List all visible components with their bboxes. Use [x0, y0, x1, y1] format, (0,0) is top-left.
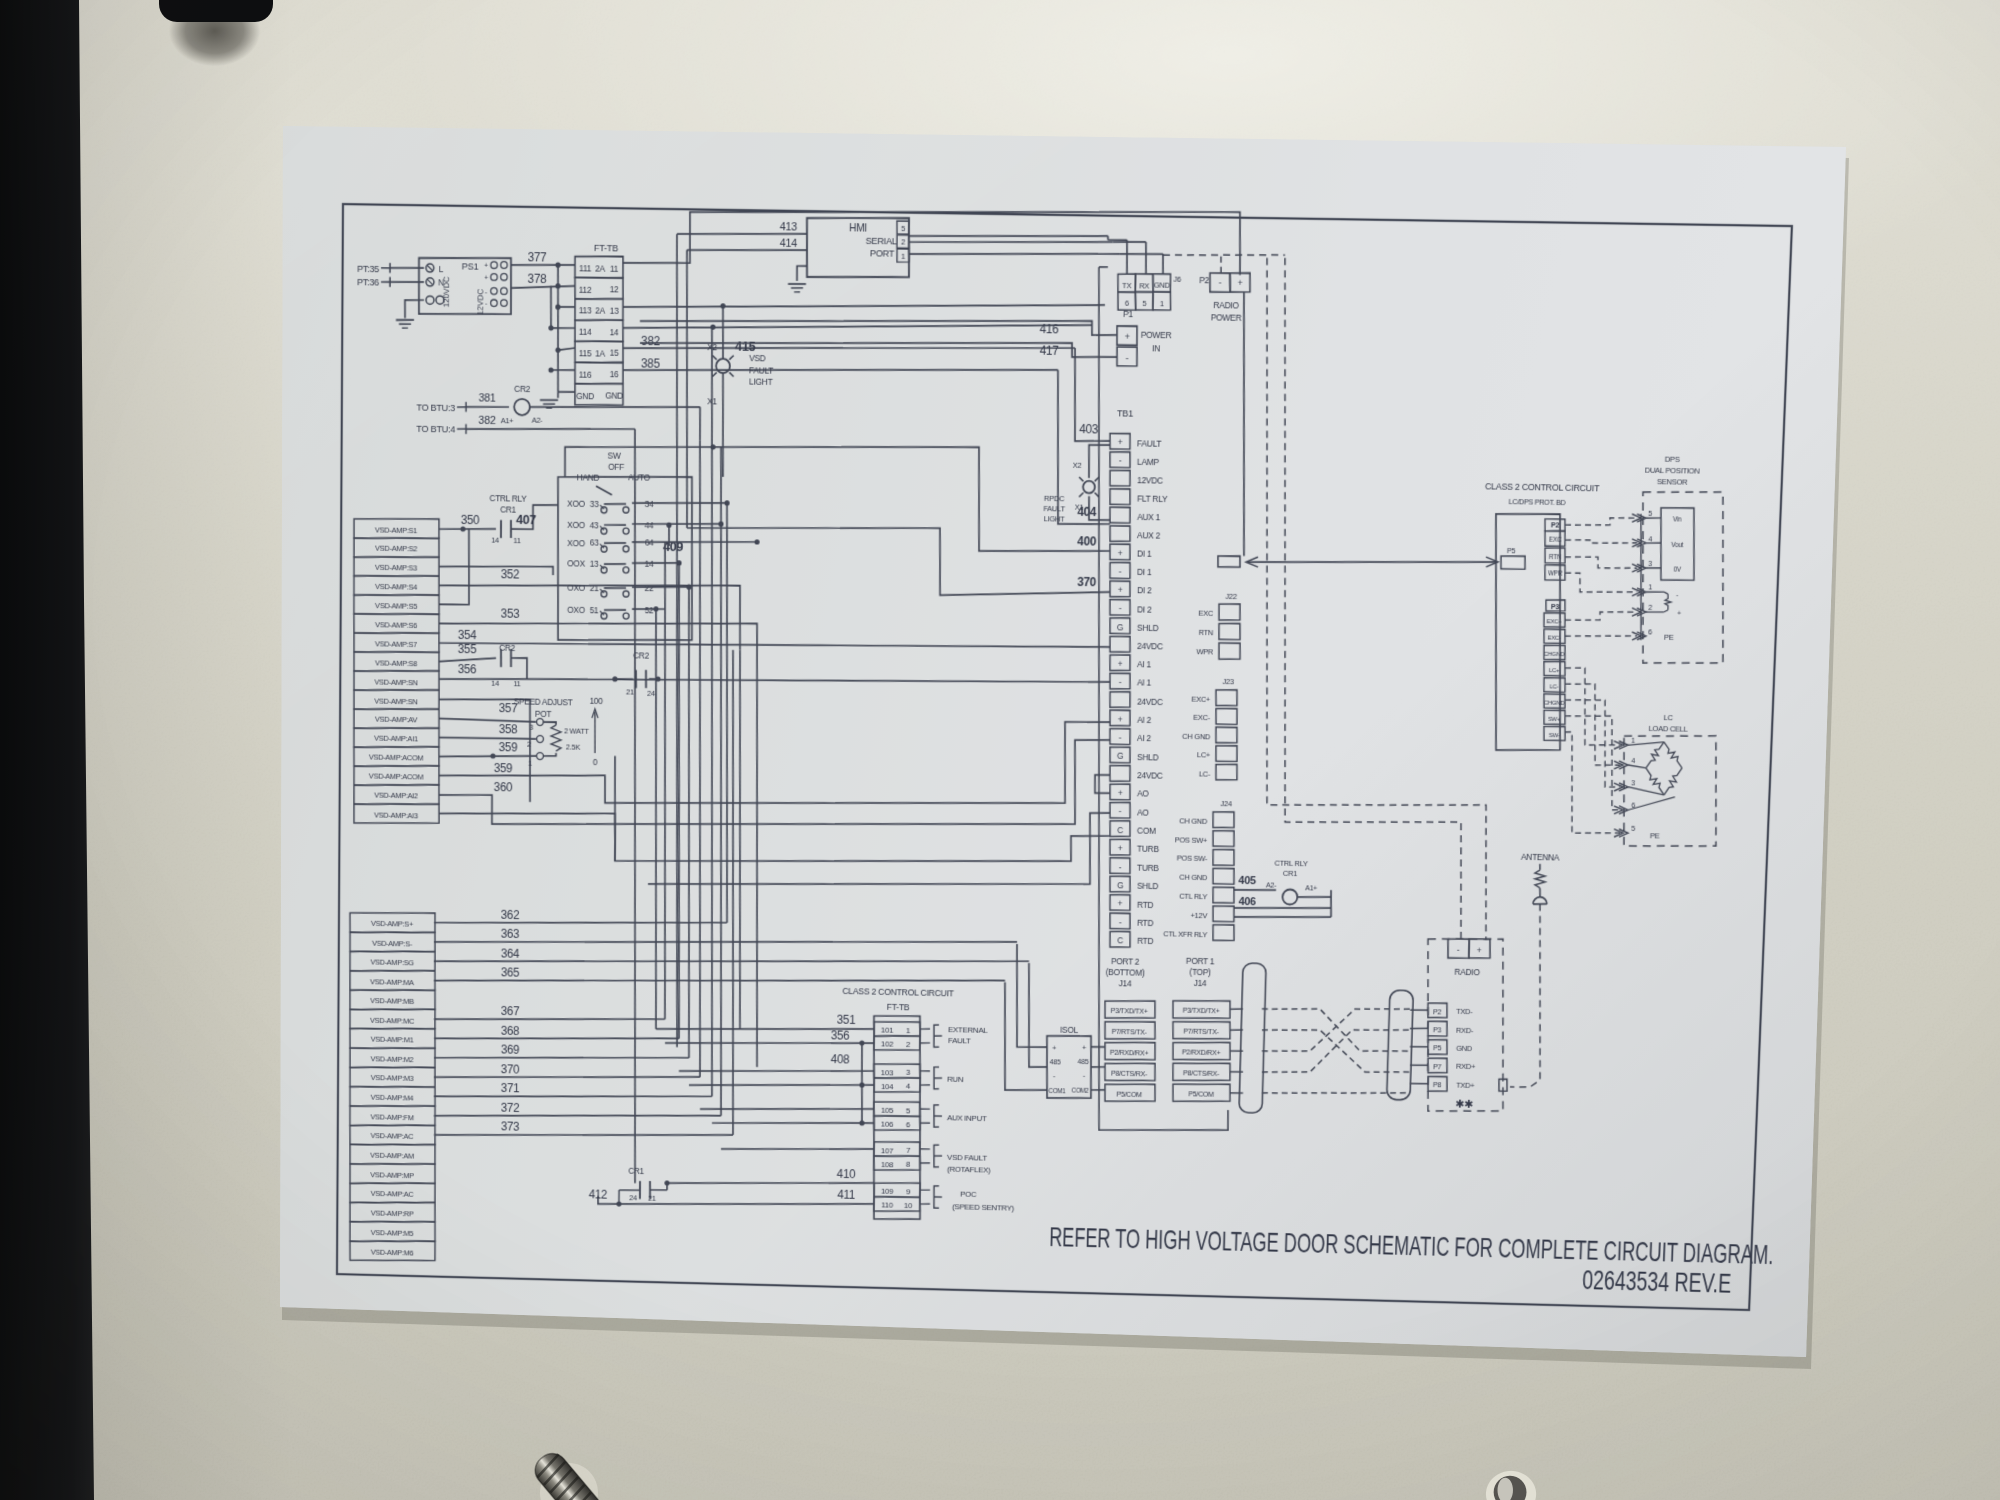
wire P2- stub — [1220, 255, 1223, 273]
svg-text:LC/DPS PROT. BD: LC/DPS PROT. BD — [1508, 497, 1565, 507]
svg-text:VSD-AMP:S+: VSD-AMP:S+ — [371, 919, 414, 929]
svg-text:410: 410 — [837, 1167, 856, 1181]
svg-text:RADIO: RADIO — [1454, 967, 1480, 978]
svg-text:RPDC: RPDC — [1044, 494, 1065, 503]
svg-text:L: L — [439, 264, 444, 274]
svg-text:14: 14 — [645, 559, 654, 569]
sensor DPS dashed box — [1637, 491, 1730, 665]
svg-text:485: 485 — [1078, 1057, 1089, 1066]
svg-text:SPEED ADJUST: SPEED ADJUST — [514, 696, 574, 707]
svg-text:2: 2 — [906, 1040, 911, 1049]
svg-text:EXTERNAL: EXTERNAL — [948, 1025, 988, 1035]
wire ISOL to PORT2 b — [1091, 1066, 1105, 1069]
wire SN to bus — [438, 698, 531, 802]
svg-text:5: 5 — [1648, 509, 1652, 518]
svg-text:4: 4 — [1631, 756, 1635, 765]
svg-text:CTL XFR RLY: CTL XFR RLY — [1163, 929, 1207, 939]
svg-text:-: - — [1119, 603, 1122, 613]
svg-text:+: + — [1118, 899, 1123, 909]
svg-text:VSD-AMP:M6: VSD-AMP:M6 — [371, 1247, 414, 1257]
svg-text:11: 11 — [610, 263, 619, 273]
svg-text:P3/TXD/TX+: P3/TXD/TX+ — [1182, 1006, 1219, 1016]
label CLASS 2 CONTROL CIRCUIT right — [1484, 481, 1600, 508]
wire 373 — [434, 1118, 733, 1142]
svg-text:3: 3 — [529, 723, 533, 732]
svg-text:P8/CTS/RX-: P8/CTS/RX- — [1183, 1069, 1220, 1079]
svg-text:AO: AO — [1137, 807, 1149, 817]
svg-text:VSD-AMP:S8: VSD-AMP:S8 — [375, 658, 417, 668]
wire 14 out — [632, 560, 682, 566]
svg-text:P2/RXD/RX+: P2/RXD/RX+ — [1110, 1048, 1149, 1058]
svg-text:33: 33 — [590, 499, 599, 509]
label CTRL RLY CR1 — [489, 494, 527, 516]
wire HMI pin1 to J6 GND — [909, 250, 1164, 274]
wire 370 — [434, 1060, 700, 1083]
svg-text:22: 22 — [645, 583, 654, 593]
wire S5 to bus — [439, 528, 470, 605]
svg-text:P7/RTS/TX-: P7/RTS/TX- — [1111, 1027, 1147, 1037]
wire 351 — [837, 1013, 856, 1027]
svg-text:FT-TB: FT-TB — [594, 243, 618, 254]
svg-text:356: 356 — [458, 662, 477, 676]
antenna — [1519, 852, 1560, 905]
wire bottom bus a — [656, 1024, 874, 1034]
svg-text:TB1: TB1 — [1117, 409, 1133, 419]
wire FT-TB 14 run — [623, 317, 1092, 335]
svg-text:CHGND: CHGND — [1544, 700, 1566, 706]
svg-text:+: + — [1052, 1043, 1057, 1052]
label SPEED ADJUST POT — [514, 696, 574, 719]
svg-text:PT:36: PT:36 — [357, 278, 379, 288]
relay coil CR1 right — [1265, 858, 1317, 905]
svg-text:HMI: HMI — [849, 223, 867, 235]
connector radio power header — [1447, 938, 1490, 959]
svg-text:+: + — [1124, 332, 1129, 342]
svg-text:CTL RLY: CTL RLY — [1179, 892, 1207, 902]
svg-text:3: 3 — [1648, 559, 1652, 568]
svg-text:VSD-AMP:M3: VSD-AMP:M3 — [371, 1074, 414, 1084]
svg-text:359: 359 — [494, 761, 513, 775]
wire 354 to 24VDC — [439, 627, 1110, 656]
connector board P3 — [1540, 600, 1570, 741]
wire ISOL in + — [1015, 944, 1050, 1048]
svg-text:369: 369 — [501, 1043, 520, 1057]
svg-text:SERIAL: SERIAL — [865, 236, 896, 247]
cable dashed J6 to riser — [1163, 253, 1285, 257]
wire 353 — [438, 606, 758, 700]
svg-text:-: - — [1676, 592, 1678, 599]
svg-text:J23: J23 — [1222, 677, 1234, 686]
svg-text:400: 400 — [1077, 535, 1097, 549]
svg-text:EXC-: EXC- — [1547, 636, 1561, 642]
svg-text:367: 367 — [501, 1004, 520, 1018]
label HAND — [577, 473, 600, 483]
wire riser 414 — [683, 250, 691, 528]
svg-text:TO BTU:3: TO BTU:3 — [416, 402, 455, 413]
svg-text:XOO: XOO — [567, 520, 585, 530]
svg-text:VSD-AMP:RP: VSD-AMP:RP — [371, 1209, 414, 1219]
svg-text:AI 1: AI 1 — [1137, 659, 1152, 669]
svg-text:7: 7 — [906, 1146, 911, 1155]
svg-text:A1+: A1+ — [501, 416, 515, 425]
svg-text:21: 21 — [590, 583, 599, 593]
terminal list VSD-AMP upper — [352, 517, 441, 824]
wire 358 — [439, 721, 536, 740]
svg-text:109: 109 — [881, 1187, 894, 1196]
svg-text:370: 370 — [501, 1062, 520, 1076]
svg-text:VSD-AMP:S4: VSD-AMP:S4 — [375, 582, 418, 592]
svg-text:+: + — [1118, 548, 1123, 558]
svg-text:COM1: COM1 — [1048, 1088, 1066, 1095]
svg-text:4: 4 — [1648, 534, 1652, 543]
svg-text:FAULT: FAULT — [1137, 438, 1163, 449]
contact CR2 left — [491, 643, 521, 689]
cable P2 WPR drop — [1564, 573, 1637, 593]
svg-text:+: + — [1118, 659, 1123, 669]
svg-text:LC-: LC- — [1199, 769, 1211, 778]
svg-text:XOO: XOO — [567, 499, 585, 509]
svg-text:VSD-AMP:AI2: VSD-AMP:AI2 — [374, 791, 418, 801]
svg-text:FAULT: FAULT — [948, 1036, 971, 1045]
svg-text:RXD+: RXD+ — [1456, 1062, 1476, 1071]
note 02643534 REV.E — [1582, 1263, 1732, 1298]
svg-text:-: - — [1119, 567, 1122, 577]
svg-text:107: 107 — [881, 1146, 894, 1155]
svg-text:6: 6 — [906, 1120, 911, 1129]
svg-text:360: 360 — [494, 780, 513, 794]
wire riser 372 — [711, 447, 731, 1116]
svg-text:-: - — [1119, 677, 1122, 687]
wire FT-TB GND to ground — [557, 392, 559, 398]
connector PORT 1 J14 — [1170, 955, 1233, 1102]
svg-text:1: 1 — [1631, 736, 1635, 745]
svg-text:VSD-AMP:MP: VSD-AMP:MP — [370, 1170, 414, 1180]
lamp RPDC FAULT LIGHT — [1043, 444, 1112, 524]
svg-text:VSD-AMP:S7: VSD-AMP:S7 — [375, 639, 417, 649]
svg-text:C: C — [1117, 936, 1123, 946]
wire 416 — [640, 314, 1118, 338]
cable dashed riser A — [1249, 258, 1509, 940]
svg-text:1A: 1A — [595, 348, 605, 358]
label POC — [934, 1186, 1015, 1213]
label FT-TB bottom — [887, 1002, 910, 1012]
wire 34 out — [632, 499, 730, 506]
svg-text:AO: AO — [1137, 789, 1149, 799]
svg-text:373: 373 — [501, 1120, 520, 1134]
svg-text:VSD-AMP:S2: VSD-AMP:S2 — [375, 544, 417, 554]
interface HMI SERIAL PORT — [806, 216, 910, 278]
svg-text:GND: GND — [605, 390, 623, 400]
svg-text:411: 411 — [837, 1188, 855, 1202]
connector PORT 2 J14 — [1103, 956, 1159, 1103]
svg-text:VSD-AMP:M1: VSD-AMP:M1 — [371, 1035, 414, 1045]
svg-text:DI 2: DI 2 — [1137, 585, 1152, 595]
svg-text:GND: GND — [1154, 281, 1171, 290]
svg-text:VSD-AMP:AI3: VSD-AMP:AI3 — [374, 810, 418, 820]
wire 64 to riser — [632, 537, 760, 545]
schematic border frame (decorative) — [337, 204, 1792, 1310]
svg-text:WPR: WPR — [1196, 648, 1214, 657]
svg-text:P2: P2 — [1551, 520, 1560, 529]
cable P2 RTN to DPS pin3 — [1565, 556, 1638, 568]
svg-text:DUAL POSITION: DUAL POSITION — [1645, 465, 1700, 475]
terminal block FT-TB bottom — [870, 1015, 924, 1220]
svg-text:EXC-: EXC- — [1193, 713, 1211, 722]
wire 352 — [439, 566, 742, 650]
svg-text:TURB: TURB — [1137, 862, 1159, 872]
svg-text:VSD-AMP:ACOM: VSD-AMP:ACOM — [369, 753, 423, 763]
svg-text:+: + — [1677, 611, 1681, 618]
svg-text:1: 1 — [901, 252, 905, 261]
svg-text:21: 21 — [648, 1194, 656, 1203]
junction 377/378 bus — [555, 262, 561, 288]
switch enclosure — [556, 475, 694, 643]
svg-text:CR1: CR1 — [1283, 869, 1297, 878]
wire stubs bottom ft-tb pins — [917, 1029, 934, 1205]
terminal list VSD-AMP lower — [348, 911, 438, 1262]
svg-text:TXD-: TXD- — [1456, 1007, 1473, 1016]
svg-text:356: 356 — [831, 1029, 850, 1043]
svg-text:11: 11 — [513, 679, 520, 688]
svg-text:P5: P5 — [1433, 1044, 1442, 1053]
svg-text:LAMP: LAMP — [1137, 456, 1160, 467]
svg-text:J14: J14 — [1194, 978, 1207, 988]
wire 370 switch to DI2+ — [686, 523, 1111, 598]
wire 378 PS1 to FT-TB 112 — [511, 271, 575, 289]
wire CR2 bus left — [612, 676, 633, 682]
svg-text:OXO: OXO — [567, 583, 585, 593]
wire 377 PS1 to FT-TB 111 — [511, 249, 575, 266]
wire S3 to bus — [439, 564, 553, 575]
door edge black strip — [0, 0, 120, 1500]
svg-text:POWER: POWER — [1141, 330, 1172, 341]
svg-text:3: 3 — [906, 1068, 911, 1077]
jumper TB1 24VDC-AO — [1095, 775, 1111, 794]
label EXTERNAL FAULT — [934, 1025, 989, 1049]
svg-text:P3: P3 — [1551, 602, 1560, 611]
svg-text:-: - — [1457, 945, 1460, 955]
connector J24 — [1163, 798, 1238, 941]
wire 364 — [434, 945, 1029, 975]
svg-text:(TOP): (TOP) — [1189, 967, 1211, 977]
svg-text:Vout: Vout — [1671, 542, 1683, 549]
svg-text:RTD: RTD — [1137, 899, 1154, 909]
svg-text:A2-: A2- — [1266, 881, 1277, 890]
svg-text:2: 2 — [901, 238, 905, 247]
svg-text:12VDC: 12VDC — [476, 289, 485, 316]
svg-text:P2/RXD/RX+: P2/RXD/RX+ — [1182, 1048, 1221, 1058]
svg-text:SW-: SW- — [1549, 733, 1560, 739]
svg-text:IN: IN — [1152, 343, 1160, 353]
svg-text:9: 9 — [906, 1187, 911, 1196]
svg-text:A2-: A2- — [532, 416, 544, 425]
svg-text:24: 24 — [629, 1193, 638, 1202]
svg-text:G: G — [1117, 751, 1124, 761]
svg-text:SW: SW — [608, 451, 622, 461]
svg-text:357: 357 — [499, 701, 518, 715]
wire 405 — [1234, 875, 1276, 891]
svg-text:RXD-: RXD- — [1456, 1025, 1474, 1034]
black hinge tab — [146, 0, 286, 98]
svg-text:TX: TX — [1122, 281, 1132, 290]
svg-text:12: 12 — [610, 284, 619, 294]
wire 359b run — [605, 712, 1110, 814]
svg-text:-: - — [1119, 917, 1122, 927]
wire FT-TB 11 to RADIO POWER + — [623, 203, 1242, 275]
screw lower left — [527, 1443, 607, 1500]
thermistor in DPS — [1645, 591, 1682, 618]
cable dashed riser B — [1266, 258, 1483, 940]
svg-text:102: 102 — [881, 1040, 894, 1049]
ground below HMI — [788, 284, 806, 292]
svg-text:P5: P5 — [1507, 546, 1516, 555]
node TO BTU:3 — [416, 401, 466, 413]
svg-text:5: 5 — [901, 224, 905, 233]
svg-text:101: 101 — [881, 1026, 894, 1035]
svg-text:113: 113 — [579, 306, 592, 316]
svg-text:352: 352 — [501, 567, 520, 581]
node PT:35 — [357, 262, 390, 274]
label asterisks — [1455, 1099, 1473, 1111]
svg-text:+12V: +12V — [1190, 911, 1208, 920]
svg-text:LIGHT: LIGHT — [1044, 514, 1066, 523]
svg-text:ANTENNA: ANTENNA — [1521, 852, 1560, 863]
svg-text:15: 15 — [610, 348, 619, 358]
wire riser 413 — [666, 234, 688, 1047]
svg-text:104: 104 — [881, 1082, 894, 1091]
svg-text:J22: J22 — [1225, 592, 1237, 601]
connector J6 TX/RX/GND — [1117, 273, 1181, 311]
svg-text:405: 405 — [1238, 875, 1256, 887]
svg-text:FAULT: FAULT — [749, 365, 774, 376]
svg-text:GND: GND — [1456, 1044, 1473, 1053]
svg-text:100: 100 — [590, 696, 604, 706]
svg-text:A1+: A1+ — [1305, 883, 1317, 892]
wire 407 — [511, 504, 558, 530]
svg-text:64: 64 — [645, 538, 654, 548]
svg-text:G: G — [1117, 622, 1124, 632]
label 409 — [663, 539, 683, 554]
svg-text:PORT 2: PORT 2 — [1111, 956, 1140, 967]
wire 359 ACOM2 — [439, 760, 605, 779]
wire ACOM to COM — [614, 756, 1112, 872]
svg-text:2A: 2A — [595, 263, 605, 273]
connector J22 — [1196, 591, 1242, 659]
svg-text:LIGHT: LIGHT — [749, 377, 773, 388]
svg-text:52: 52 — [645, 605, 654, 615]
svg-text:358: 358 — [499, 722, 518, 736]
svg-text:VSD-AMP:AM: VSD-AMP:AM — [370, 1151, 414, 1161]
svg-text:VSD-AMP:ACOM: VSD-AMP:ACOM — [369, 772, 423, 782]
radio module dashed box — [1423, 937, 1509, 1112]
svg-text:8: 8 — [906, 1160, 911, 1169]
svg-text:CR1: CR1 — [628, 1166, 644, 1176]
svg-text:VSD-AMP:M5: VSD-AMP:M5 — [371, 1228, 414, 1238]
wire 408 — [679, 1048, 874, 1075]
connector J23 — [1181, 676, 1240, 780]
controller enclosure outline — [1079, 267, 1251, 1133]
svg-text:P8: P8 — [1433, 1081, 1442, 1090]
svg-text:VSD-AMP:S5: VSD-AMP:S5 — [375, 601, 417, 611]
connector board P2 — [1543, 519, 1567, 581]
svg-text:108: 108 — [881, 1160, 894, 1169]
svg-text:-: - — [485, 301, 487, 308]
svg-text:P3/TXD/TX+: P3/TXD/TX+ — [1110, 1006, 1147, 1016]
wire 367 — [434, 1003, 665, 1025]
wire antenna to radio — [1499, 903, 1546, 1092]
switch contacts HAND-OFF-AUTO — [566, 497, 655, 619]
svg-text:VSD-AMP:MC: VSD-AMP:MC — [370, 1016, 415, 1026]
svg-text:X2: X2 — [1073, 461, 1082, 470]
svg-text:LOAD CELL: LOAD CELL — [1648, 724, 1687, 734]
wire HMI pin2b to J6 RX — [908, 238, 1146, 274]
svg-text:X1: X1 — [1075, 503, 1084, 512]
svg-text:355: 355 — [458, 642, 477, 656]
svg-text:353: 353 — [501, 607, 520, 621]
svg-text:PT:35: PT:35 — [357, 264, 379, 275]
wire 382 FT-TB 15 — [623, 334, 1075, 356]
svg-text:112: 112 — [579, 284, 592, 294]
wire 369 — [434, 1041, 689, 1063]
svg-text:-: - — [1083, 1071, 1086, 1080]
svg-text:VSD-AMP:FM: VSD-AMP:FM — [370, 1112, 413, 1122]
svg-text:P7/RTS/TX-: P7/RTS/TX- — [1183, 1027, 1219, 1037]
wire PT:35 to PS1 L — [390, 267, 424, 268]
svg-text:CHGND: CHGND — [1544, 652, 1566, 658]
svg-text:C: C — [1117, 825, 1123, 835]
wire riser 367 — [659, 542, 672, 1019]
label RADIO — [1454, 967, 1480, 978]
svg-text:11: 11 — [513, 536, 520, 545]
svg-text:J14: J14 — [1119, 978, 1132, 988]
svg-text:AUX INPUT: AUX INPUT — [947, 1113, 987, 1123]
svg-text:LC+: LC+ — [1197, 751, 1211, 760]
svg-text:HAND: HAND — [577, 473, 600, 483]
svg-text:6: 6 — [1648, 627, 1652, 636]
svg-text:VSD-AMP:M2: VSD-AMP:M2 — [371, 1054, 414, 1064]
svg-text:-: - — [1126, 353, 1129, 363]
svg-text:110: 110 — [881, 1201, 894, 1210]
wire 363 — [434, 925, 1017, 954]
svg-text:VSD-AMP:MB: VSD-AMP:MB — [370, 996, 414, 1006]
svg-text:REFER TO HIGH VOLTAGE DOOR SCH: REFER TO HIGH VOLTAGE DOOR SCHEMATIC FOR… — [1049, 1221, 1774, 1270]
wire HMI pin2 to J6 TX — [908, 233, 1128, 274]
svg-text:385: 385 — [641, 356, 661, 371]
svg-text:115: 115 — [579, 348, 592, 358]
svg-text:354: 354 — [458, 628, 477, 642]
svg-text:P1: P1 — [1123, 309, 1134, 319]
wire from VSD fault light down — [721, 373, 724, 477]
wire CR2 bus right — [649, 676, 661, 681]
wire riser 352b — [734, 650, 745, 1029]
svg-text:DPS: DPS — [1665, 455, 1680, 464]
svg-text:407: 407 — [516, 512, 536, 527]
svg-text:CH GND: CH GND — [1179, 873, 1208, 883]
wire 106 in — [712, 1119, 874, 1127]
label P1 — [1123, 309, 1134, 319]
pot wiper scale — [589, 696, 603, 767]
wire 382 BTU:4 — [466, 415, 636, 452]
svg-text:AI 2: AI 2 — [1137, 733, 1152, 743]
svg-text:SHLD: SHLD — [1137, 881, 1159, 891]
svg-text:43: 43 — [590, 520, 599, 530]
label RUN — [934, 1067, 964, 1090]
cable P3 EXC- to DPS PE — [1565, 635, 1637, 638]
wire HMI ground stub — [797, 266, 807, 281]
svg-text:RTN: RTN — [1199, 628, 1214, 637]
wire riser 362 — [721, 505, 733, 923]
svg-text:1: 1 — [528, 759, 532, 768]
